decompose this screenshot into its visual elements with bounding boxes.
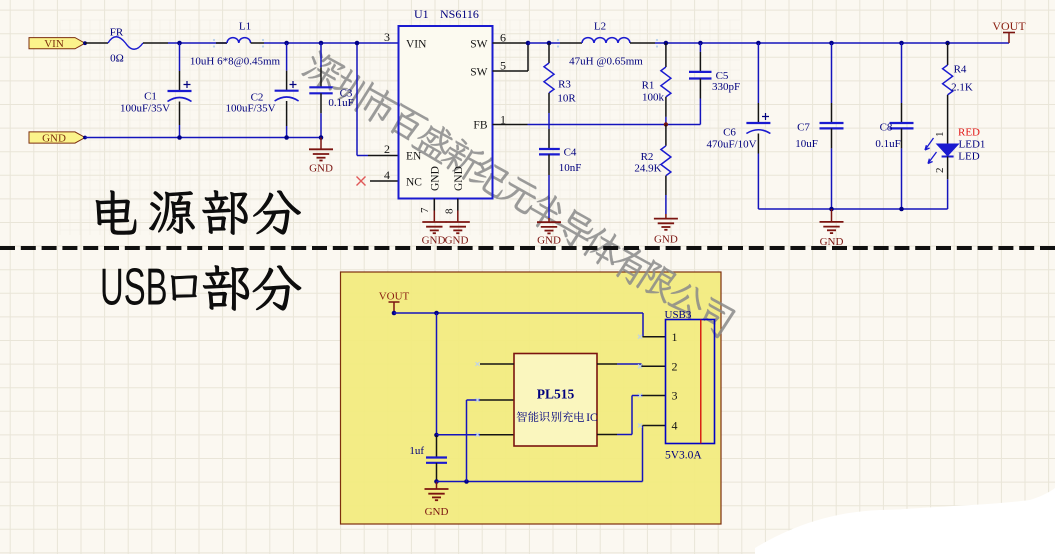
svg-text:0Ω: 0Ω <box>110 53 124 65</box>
wire VOUT rail (USB) <box>394 313 643 337</box>
capacitor C1 100uF/35V <box>120 43 192 138</box>
svg-text:R2: R2 <box>641 151 654 163</box>
capacitor C8 0.1uF <box>875 43 913 209</box>
capacitor C5 330pF <box>689 43 740 125</box>
svg-text:VIN: VIN <box>44 38 64 50</box>
svg-text:GND: GND <box>445 234 469 246</box>
svg-text:10R: 10R <box>557 93 576 105</box>
junction node mid-left riser <box>464 479 469 484</box>
svg-text:2: 2 <box>384 142 390 156</box>
svg-text:10uH 6*8@0.45mm: 10uH 6*8@0.45mm <box>190 56 281 68</box>
svg-text:L1: L1 <box>239 21 251 33</box>
svg-text:5V3.0A: 5V3.0A <box>665 450 702 462</box>
ground symbol (C4) <box>537 218 561 247</box>
svg-text:2: 2 <box>934 168 946 174</box>
svg-text:SW: SW <box>470 67 487 79</box>
capacitor C6 470uF/10V <box>706 43 770 209</box>
svg-text:GND: GND <box>309 163 333 175</box>
svg-text:GND: GND <box>453 166 465 191</box>
svg-text:4: 4 <box>384 168 390 182</box>
svg-text:100uF/35V: 100uF/35V <box>225 103 275 115</box>
wire to PL515 lower-left pin <box>437 433 515 437</box>
svg-text:USB3: USB3 <box>665 309 692 321</box>
junction node C3 bottom <box>319 135 324 140</box>
svg-text:C8: C8 <box>880 122 893 134</box>
junction node C8 bottom <box>899 207 904 212</box>
wire node to EN pin <box>357 43 398 156</box>
svg-text:47uH @0.65mm: 47uH @0.65mm <box>569 56 643 68</box>
svg-text:1: 1 <box>934 132 946 138</box>
pin 6 SW wire <box>493 42 529 44</box>
svg-text:10nF: 10nF <box>559 162 582 174</box>
IC U1 NS6116 buck regulator <box>384 7 506 214</box>
power port VOUT (USB section) <box>379 291 410 316</box>
capacitor C4 10nF <box>539 147 581 219</box>
wire riser to PL515 mid-left pin <box>467 398 515 482</box>
capacitor 1uf (USB) <box>409 435 447 482</box>
svg-text:100uF/35V: 100uF/35V <box>120 103 170 115</box>
svg-text:C6: C6 <box>723 127 736 139</box>
junction node cap branch <box>434 311 439 316</box>
svg-text:1: 1 <box>672 330 678 344</box>
svg-text:2: 2 <box>672 360 678 374</box>
PL515 upper-left pin (n.c.) <box>476 362 515 366</box>
svg-text:8: 8 <box>444 208 456 214</box>
svg-text:C4: C4 <box>564 147 577 159</box>
svg-text:VIN: VIN <box>406 39 427 51</box>
label 智能识别充电IC <box>517 411 598 424</box>
junction node R1 top <box>664 41 669 46</box>
resistor R4 2.1K <box>943 43 973 95</box>
resistor R1 100k <box>642 43 671 125</box>
svg-text:470uF/10V: 470uF/10V <box>706 139 756 151</box>
junction node PL515 bottom-left <box>434 433 439 438</box>
junction node R3 top <box>547 41 552 46</box>
capacitor C2 100uF/35V <box>225 43 298 138</box>
junction node cap bottom <box>434 479 439 484</box>
svg-text:FB: FB <box>473 120 487 132</box>
USB section background box <box>341 272 722 524</box>
svg-text:RED: RED <box>958 127 980 139</box>
output ground rail wire <box>758 208 947 210</box>
ground symbol pin8 U1 <box>445 199 470 247</box>
junction node VIN/C1 <box>177 41 182 46</box>
pin 5 SW wire <box>493 43 529 71</box>
junction node C6 top <box>756 41 761 46</box>
svg-text:C7: C7 <box>797 122 810 134</box>
section title 电源部分 <box>96 190 301 234</box>
svg-text:U1: U1 <box>414 7 429 21</box>
svg-text:3: 3 <box>384 30 390 44</box>
svg-text:L2: L2 <box>594 21 606 33</box>
svg-text:R3: R3 <box>558 79 571 91</box>
svg-text:GND: GND <box>429 166 441 191</box>
svg-text:R4: R4 <box>954 64 967 76</box>
svg-text:GND: GND <box>537 235 561 247</box>
svg-text:GND: GND <box>42 132 66 144</box>
svg-text:4: 4 <box>672 419 678 433</box>
svg-text:NS6116: NS6116 <box>440 7 479 21</box>
svg-text:USB: USB <box>100 259 168 316</box>
junction node C3 top <box>319 41 324 46</box>
resistor R3 10R <box>544 43 576 113</box>
junction node EN branch <box>355 41 360 46</box>
svg-text:2.1K: 2.1K <box>951 82 973 94</box>
svg-text:100k: 100k <box>642 92 665 104</box>
svg-text:VOUT: VOUT <box>992 19 1026 33</box>
svg-text:LED1: LED1 <box>959 139 986 151</box>
svg-text:SW: SW <box>470 39 487 51</box>
wire USB pin1 <box>638 335 666 339</box>
wire cap branch vertical <box>436 313 438 435</box>
ground symbol (R2) <box>654 214 678 246</box>
junction node L1/C2 <box>284 41 289 46</box>
svg-text:GND: GND <box>654 234 678 246</box>
svg-text:FR: FR <box>110 27 124 39</box>
junction node C5 top <box>698 41 703 46</box>
wire USB pin4 riser <box>638 424 666 482</box>
svg-text:3: 3 <box>672 389 678 403</box>
no-connect marker NC pin <box>357 177 399 186</box>
wire VIN to FR <box>85 42 108 44</box>
svg-text:330pF: 330pF <box>712 81 740 93</box>
svg-text:IC: IC <box>586 412 597 424</box>
watermark 深圳市百盛新纪元半导体有限公司 <box>299 47 736 339</box>
svg-text:R1: R1 <box>642 80 655 92</box>
IC PL515 charging controller <box>514 354 597 447</box>
section title USB口部分 <box>100 259 301 316</box>
svg-text:GND: GND <box>425 506 449 518</box>
junction node FB/R1/R2 <box>664 122 668 126</box>
wire FR to C1 node <box>168 42 227 44</box>
wire R3 to C4 <box>548 113 550 149</box>
svg-text:10uF: 10uF <box>795 138 818 150</box>
svg-text:GND: GND <box>422 234 446 246</box>
port VIN <box>29 38 87 50</box>
port GND (input) <box>29 132 87 144</box>
svg-text:0.1uF: 0.1uF <box>875 138 900 150</box>
svg-text:NC: NC <box>406 177 422 189</box>
junction node C7 bottom <box>829 207 834 212</box>
junction node R4 top <box>945 41 950 46</box>
ground rail wire (input section) <box>85 137 321 139</box>
svg-text:LED: LED <box>958 151 979 163</box>
wire PL515 pin to USB pin3 <box>597 394 666 435</box>
pin 1 FB wire <box>493 124 701 126</box>
wire SW to L2 <box>528 42 560 44</box>
port VOUT (top) <box>992 19 1026 43</box>
section divider dashed line <box>0 246 1055 250</box>
svg-text:1uf: 1uf <box>409 445 424 457</box>
ground symbol (USB cap) <box>425 482 449 519</box>
wire PL515 pin to USB pin2 <box>597 364 666 368</box>
junction node C7 top <box>829 41 834 46</box>
ground symbol (input rail) <box>309 138 333 175</box>
inductor L1 10uH <box>190 21 398 68</box>
svg-text:0.1uF: 0.1uF <box>328 97 353 109</box>
svg-text:PL515: PL515 <box>537 387 575 402</box>
junction node C1 bottom <box>177 135 182 140</box>
svg-text:C1: C1 <box>144 91 157 103</box>
resistor FR 0Ω (fuse) <box>108 27 168 65</box>
resistor R2 24.9K <box>634 125 671 215</box>
junction node SW pins <box>526 41 531 46</box>
wire hotspot marks L1 <box>213 39 658 48</box>
junction node C8 top <box>899 41 904 46</box>
svg-text:24.9K: 24.9K <box>634 163 661 175</box>
svg-text:EN: EN <box>406 151 422 163</box>
inductor L2 47uH <box>560 21 655 68</box>
capacitor C3 0.1uF <box>309 43 353 138</box>
capacitor C7 10uF <box>795 43 843 209</box>
connector USB3 5V3.0A <box>665 309 715 462</box>
LED LED1 RED <box>925 95 985 209</box>
ground symbol (output rail) <box>820 209 844 248</box>
ground rail wire (USB) <box>437 481 643 483</box>
junction node C2 bottom <box>284 135 289 140</box>
svg-text:VOUT: VOUT <box>379 291 410 303</box>
svg-text:7: 7 <box>419 207 431 213</box>
wire L2 to VOUT <box>655 42 1009 44</box>
ground symbol pin7 U1 <box>422 199 447 247</box>
